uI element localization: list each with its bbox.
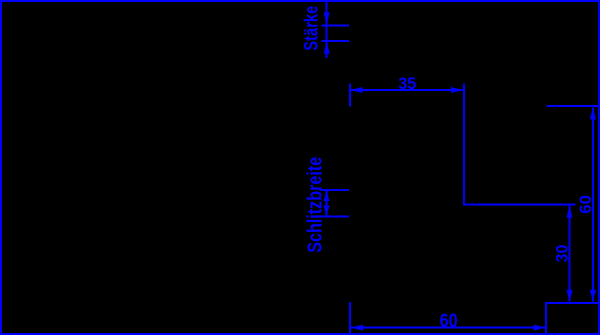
dimension 30: dimension line: [569, 206, 571, 302]
dimension 60 bottom: right extension line: [545, 302, 547, 334]
dimension Staerke: upper extension line: [321, 24, 349, 26]
dimension 60 right: down arrow: [590, 290, 596, 302]
dimension Staerke: vertical leader line: [326, 2, 328, 58]
dimension 35: right arrow: [451, 87, 463, 93]
dimension 60 bottom: right arrow: [534, 325, 546, 331]
dimension 35: left arrow: [351, 87, 363, 93]
svg-text:Schlitzbreite: Schlitzbreite: [305, 157, 327, 253]
dimension 60 right: dimension line: [592, 107, 594, 301]
dimension Schlitzbreite: lower extension line: [320, 216, 350, 218]
dimension 30: up arrow: [567, 206, 573, 218]
dimension 60 bottom: left extension line: [349, 302, 351, 334]
dimension Schlitzbreite: upper extension line: [320, 189, 350, 191]
dimension Staerke: down arrow: [324, 13, 330, 25]
svg-text:35: 35: [398, 74, 416, 93]
dimension 60 right: up arrow: [590, 107, 596, 119]
svg-text:Stärke: Stärke: [301, 6, 322, 51]
dimension Schlitzbreite: down arrow: [324, 206, 330, 216]
dimension 35: dimension line: [351, 89, 464, 91]
dimension 35: right extension line: [463, 84, 465, 205]
dimension 60 bottom: dimension line: [351, 327, 546, 329]
dimension 60 right: bottom extension line: [546, 302, 598, 304]
dimension Staerke: up arrow: [324, 42, 330, 54]
dimension Schlitzbreite: up arrow: [324, 191, 330, 201]
dimension 60 bottom: left arrow: [351, 325, 363, 331]
dimension 60 right: top extension line: [546, 105, 598, 107]
dimension 30: down arrow: [567, 290, 573, 302]
step corner extension line horizontal: [463, 204, 576, 206]
dimension Staerke: lower extension line: [321, 40, 349, 42]
svg-text:60: 60: [440, 311, 458, 332]
dimension 35: left extension line: [349, 83, 351, 106]
svg-text:60: 60: [576, 195, 595, 214]
dimension Schlitzbreite: leader line: [326, 190, 328, 216]
svg-text:30: 30: [553, 245, 572, 263]
